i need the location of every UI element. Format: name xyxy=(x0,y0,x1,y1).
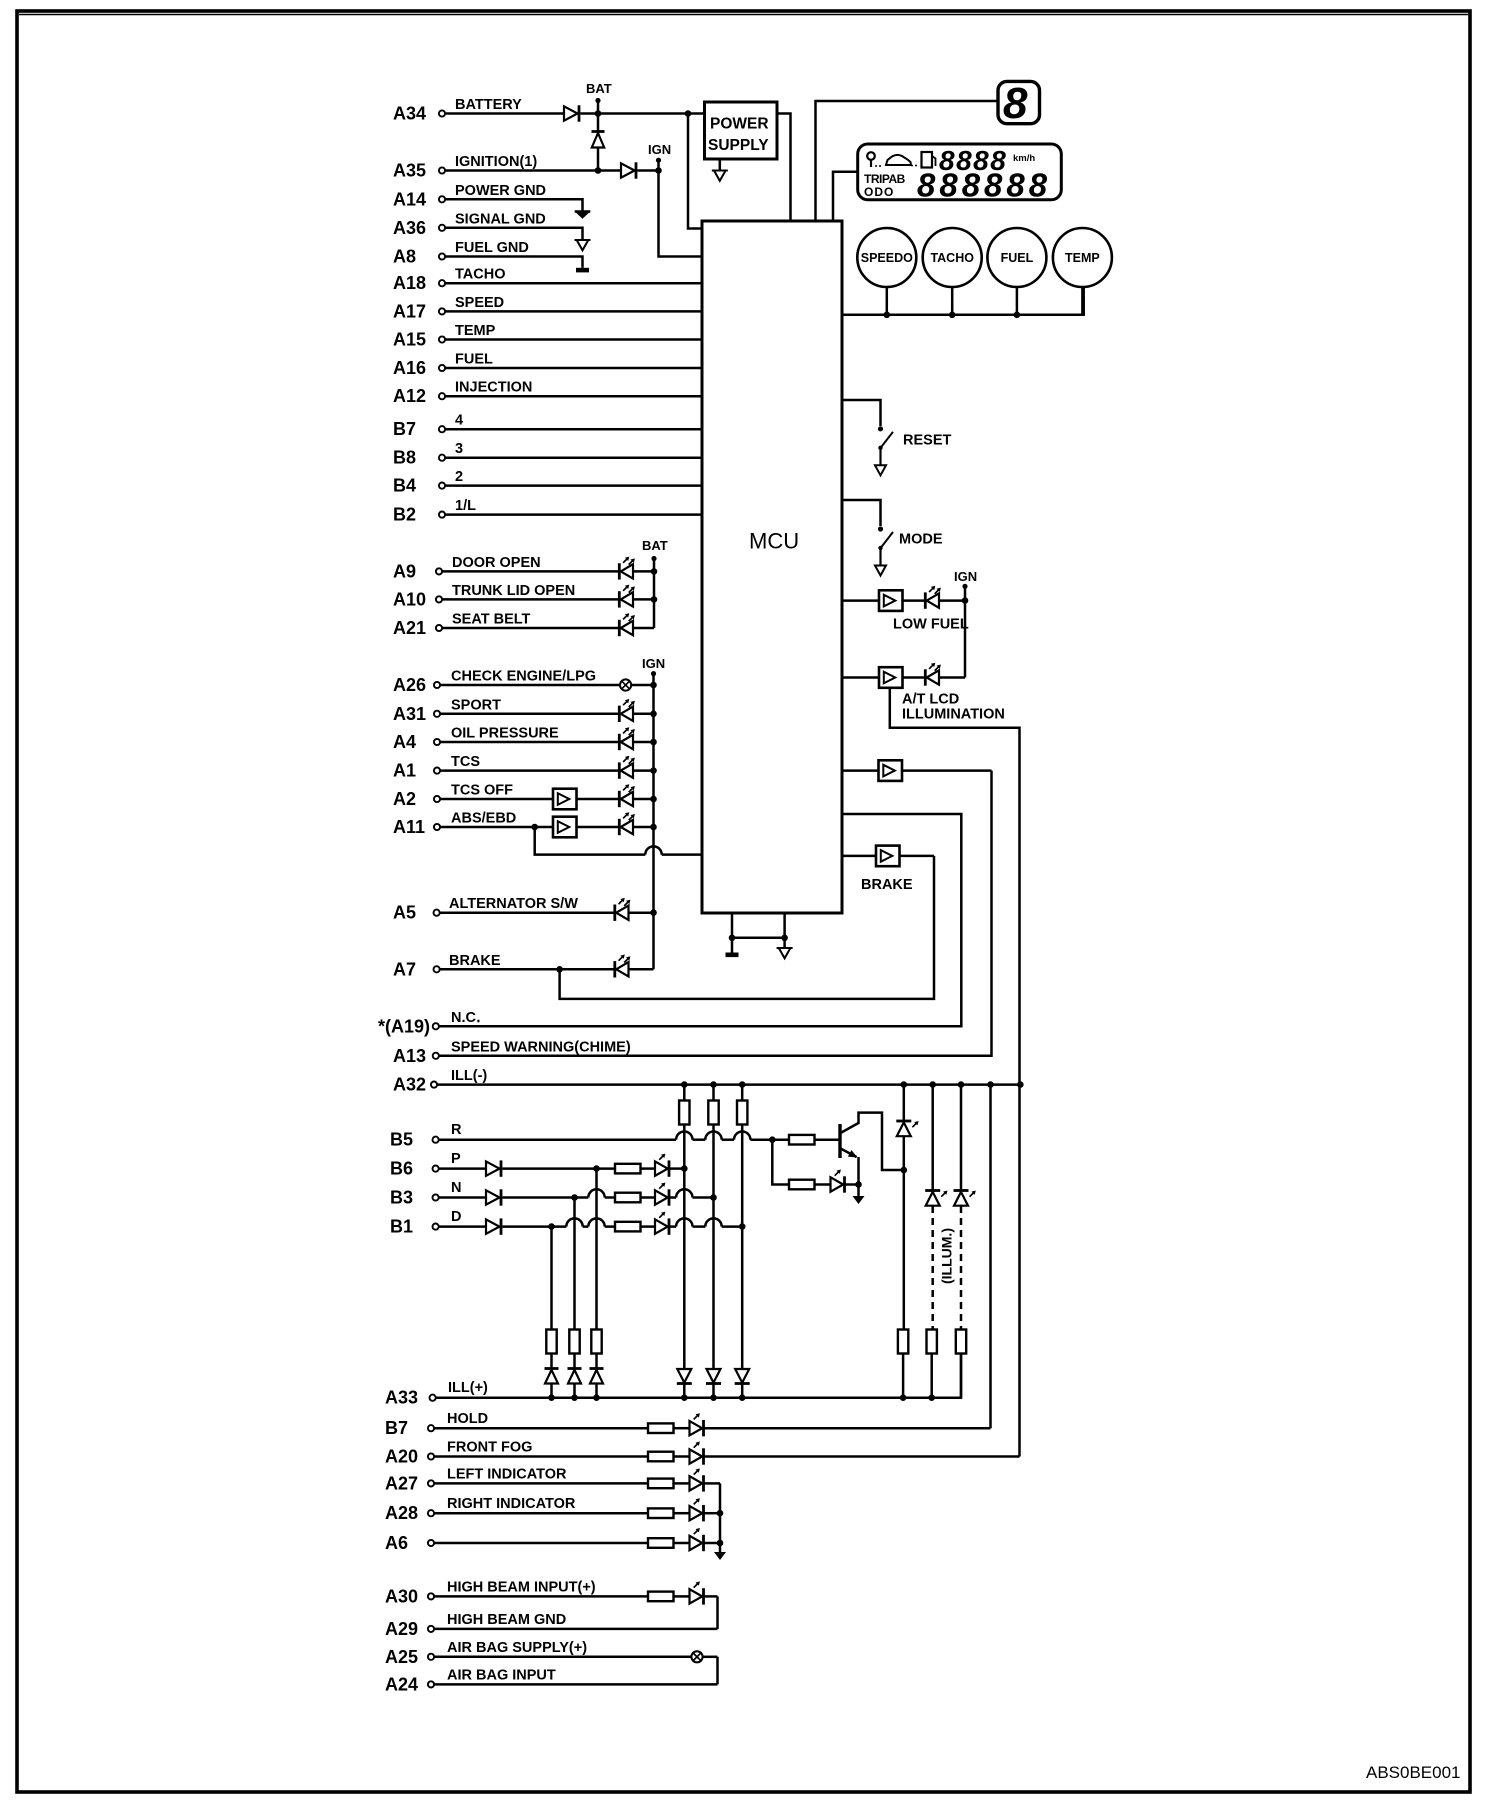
gauge FUEL circle xyxy=(987,228,1046,287)
diode D3 ignition xyxy=(621,162,636,178)
wire colA to ILL+ rail xyxy=(902,1354,905,1398)
wire A2 TCS OFF xyxy=(440,798,553,801)
wire B1 seg2 xyxy=(693,1225,706,1228)
terminal A35 xyxy=(439,167,445,173)
resistor B1 xyxy=(615,1222,641,1232)
resistor B6 xyxy=(615,1164,641,1174)
terminal A27 xyxy=(428,1480,434,1486)
resistor B1 column xyxy=(546,1330,556,1354)
svg-text:4: 4 xyxy=(455,413,463,429)
wire bulb A26 to IGN rail xyxy=(631,684,653,687)
svg-text:ODO: ODO xyxy=(864,185,894,199)
svg-text:A15: A15 xyxy=(393,330,426,350)
LED TCS OFF xyxy=(619,784,635,807)
driver low fuel xyxy=(879,590,903,611)
wire LED feedback to emitter xyxy=(845,1183,859,1186)
svg-text:A2: A2 xyxy=(393,789,416,809)
wire B6 column down xyxy=(595,1169,598,1330)
wire B2 1/L to MCU xyxy=(445,513,702,516)
wire driver A11 to LED xyxy=(577,826,619,829)
wire IGN right rail xyxy=(964,586,967,677)
wire B3 column to ILL+ rail xyxy=(573,1385,576,1398)
Q1 emitter arrowhead xyxy=(848,1150,858,1158)
wire A1 TCS xyxy=(440,769,619,772)
wire ILL- col2 to resistor xyxy=(712,1085,715,1101)
wire A30 HIGH BEAM INPUT(+) to resistor xyxy=(434,1595,648,1598)
svg-text:A32: A32 xyxy=(393,1075,426,1095)
LED ABS/EBD xyxy=(619,812,635,835)
wire hop B5 over col2 xyxy=(705,1132,721,1140)
svg-text:POWER: POWER xyxy=(710,116,769,133)
svg-text:A20: A20 xyxy=(385,1447,418,1467)
terminal A18 xyxy=(439,280,445,286)
wire A31 SPORT xyxy=(440,713,619,716)
wire battery junction down to MCU xyxy=(688,114,702,229)
wire hop A11 over IGN rail xyxy=(645,846,661,854)
terminal A19 xyxy=(433,1023,439,1029)
wire SPEEDO to bus xyxy=(886,287,889,315)
resistor ILL- col3 xyxy=(737,1101,747,1125)
wire A6 resistor to LED xyxy=(674,1542,690,1545)
svg-text:R: R xyxy=(451,1122,462,1138)
wire B6 resistor to LED xyxy=(641,1167,656,1170)
wire BAT lamp rail xyxy=(653,559,656,629)
LED colA up xyxy=(896,1121,918,1136)
terminal A5 xyxy=(434,910,440,916)
node ILL+ colA xyxy=(900,1394,907,1401)
node BAT rail A10 xyxy=(651,596,658,603)
wire MCU to driver3 xyxy=(842,769,879,772)
wire AT LCD LED to IGN rail xyxy=(939,676,965,679)
svg-text:MODE: MODE xyxy=(899,532,943,548)
wire A7 to brake driver loop xyxy=(560,856,934,999)
wire B7 HOLD to resistor xyxy=(434,1427,648,1430)
wire B7 resistor to LED xyxy=(674,1427,690,1430)
wire B5 R segment4 xyxy=(750,1138,789,1141)
wire ILL- col2 down xyxy=(712,1125,715,1370)
wire A20 FRONT FOG to resistor xyxy=(434,1455,648,1458)
resistor colC xyxy=(956,1330,966,1354)
wire colB to ILL+ rail xyxy=(930,1354,933,1398)
node ILL+ B1 xyxy=(548,1394,555,1401)
svg-text:P: P xyxy=(451,1151,461,1167)
terminal A8 xyxy=(439,253,445,259)
node ILL+ B6 xyxy=(593,1394,600,1401)
svg-text:8: 8 xyxy=(1003,79,1028,128)
node A7 brake branch xyxy=(556,966,563,973)
wire A29 HIGH BEAM GND xyxy=(434,1628,718,1631)
LED A30 HIGH BEAM INPUT(+) xyxy=(690,1581,704,1604)
svg-text:A12: A12 xyxy=(393,386,426,406)
diode col3 down xyxy=(735,1369,750,1384)
svg-text:FUEL: FUEL xyxy=(1001,251,1034,265)
wire MCU bottom tie xyxy=(732,937,785,940)
svg-text:SUPPLY: SUPPLY xyxy=(708,137,769,154)
wire B6 to column xyxy=(670,1167,685,1170)
wire A28 resistor to LED xyxy=(674,1512,690,1515)
wire B5 lower branch xyxy=(772,1140,789,1185)
svg-text:ILL(-): ILL(-) xyxy=(451,1068,487,1084)
node IGN2 stub top xyxy=(651,671,656,676)
svg-text:A18: A18 xyxy=(393,273,426,293)
wire MCU to mode switch xyxy=(842,500,881,526)
terminal A15 xyxy=(439,336,445,342)
wire B3 to column xyxy=(693,1196,714,1199)
driver ABS/EBD xyxy=(553,817,577,838)
wire LED A9 to BAT rail xyxy=(633,570,654,573)
node ILL- rail x1020.3 xyxy=(1017,1081,1024,1088)
svg-text:TRUNK LID OPEN: TRUNK LID OPEN xyxy=(452,583,575,599)
terminal B3 xyxy=(433,1194,439,1200)
node B6 column join xyxy=(681,1165,688,1172)
wire A28 RIGHT INDICATOR to resistor xyxy=(434,1512,648,1515)
diode D1 battery xyxy=(564,105,579,121)
switch RESET xyxy=(875,426,893,475)
wire A10 TRUNK LID OPEN to LED xyxy=(442,598,619,601)
svg-text:ABS/EBD: ABS/EBD xyxy=(451,811,516,827)
LED B7 HOLD xyxy=(690,1413,704,1436)
wire A9 DOOR OPEN to LED xyxy=(442,570,619,573)
terminal A2 xyxy=(434,796,440,802)
driver speed warning xyxy=(879,760,903,781)
svg-text:SIGNAL GND: SIGNAL GND xyxy=(455,211,546,227)
terminal A34 xyxy=(439,110,445,116)
svg-text:ILLUMINATION: ILLUMINATION xyxy=(902,707,1005,723)
terminal A14 xyxy=(439,196,445,202)
wire A13 speed warning loop xyxy=(439,771,992,1056)
svg-text:A34: A34 xyxy=(393,104,426,124)
terminal B7 xyxy=(439,426,445,432)
wire B1 column to ILL+ rail xyxy=(550,1385,553,1398)
wire ILL- to HOLD column xyxy=(989,1085,992,1429)
wire B5 R segment3 xyxy=(722,1138,734,1141)
wire hop B3 over x684.3 xyxy=(676,1189,692,1197)
power ground filled arrow xyxy=(575,212,591,219)
wire A5 alternator xyxy=(440,911,614,914)
signal ground open arrow xyxy=(575,240,591,250)
node ILL+ col3 xyxy=(739,1394,746,1401)
fuel ground bar xyxy=(576,268,589,273)
node ILL- rail x742.2 xyxy=(739,1081,746,1088)
svg-text:B2: B2 xyxy=(393,505,416,525)
wire TACHO to bus xyxy=(951,287,954,315)
terminal A10 xyxy=(436,596,442,602)
diode B1 D xyxy=(486,1218,501,1234)
node B5 branch xyxy=(769,1136,776,1143)
svg-text:B8: B8 xyxy=(393,448,416,468)
terminal B6 xyxy=(433,1166,439,1172)
svg-text:1/L: 1/L xyxy=(455,498,476,514)
wire hop B1 over x596.5 xyxy=(588,1218,604,1226)
wire MCU to 7-seg digit xyxy=(816,101,999,221)
terminal A6 xyxy=(428,1540,434,1546)
LED feedback xyxy=(831,1170,845,1193)
wire B1 to column xyxy=(722,1225,743,1228)
resistor B3 column xyxy=(569,1330,579,1354)
wire A11 ABS/EBD xyxy=(440,826,553,829)
wire B1 column to diode xyxy=(550,1354,553,1369)
svg-text:A28: A28 xyxy=(385,1503,418,1523)
diode B6 column up xyxy=(590,1369,604,1384)
svg-text:INJECTION: INJECTION xyxy=(455,380,532,396)
node A11 branch xyxy=(531,824,538,831)
svg-text:3: 3 xyxy=(455,441,463,457)
wire indicator common xyxy=(719,1483,722,1552)
svg-text:AIR BAG INPUT: AIR BAG INPUT xyxy=(447,1667,556,1683)
wire B1 seg xyxy=(583,1225,589,1228)
wire B3 to resistor xyxy=(605,1196,615,1199)
driver brake xyxy=(876,846,900,867)
wire MCU bottom pin2 xyxy=(783,913,786,948)
resistor A6 xyxy=(648,1538,674,1548)
power supply ground open arrow xyxy=(712,171,728,181)
7-segment digit indicator icon xyxy=(998,79,1040,128)
wire A26 CHECK ENGINE/LPG xyxy=(440,684,620,687)
svg-text:FRONT FOG: FRONT FOG xyxy=(447,1440,532,1456)
wire MCU to reset switch xyxy=(842,400,881,426)
wire B1 seg xyxy=(503,1225,567,1228)
svg-text:IGN: IGN xyxy=(954,569,977,584)
wire driver to AT LCD LED xyxy=(903,676,925,679)
svg-text:A5: A5 xyxy=(393,903,416,923)
wire B3 column down xyxy=(573,1198,576,1330)
svg-text:ABS0BE001: ABS0BE001 xyxy=(1366,1763,1461,1782)
terminal B5 xyxy=(433,1137,439,1143)
terminal A25 xyxy=(428,1654,434,1660)
svg-text:IGN: IGN xyxy=(642,656,665,671)
node B1 column join xyxy=(739,1223,746,1230)
node indicator A28 xyxy=(717,1510,724,1517)
terminal A29 xyxy=(428,1626,434,1632)
wire MCU to brake driver xyxy=(842,855,876,858)
gauge SPEEDO circle xyxy=(857,228,916,287)
terminal A1 xyxy=(434,768,440,774)
wire LED A2 to IGN rail xyxy=(633,798,654,801)
node B3 branch xyxy=(571,1194,578,1201)
wire B6 column to diode xyxy=(595,1354,598,1369)
terminal A13 xyxy=(433,1053,439,1059)
terminal A30 xyxy=(428,1593,434,1599)
wire TEMP to bus xyxy=(1081,287,1084,315)
node ILL- rail x903.8 xyxy=(901,1081,908,1088)
wire ILL- col3 down xyxy=(741,1125,744,1370)
wire B1 seg2 xyxy=(670,1225,677,1228)
svg-text:(ILLUM.): (ILLUM.) xyxy=(939,1228,955,1284)
wire R5 to LED xyxy=(815,1183,831,1186)
power supply U2 box xyxy=(705,102,778,159)
svg-text:N.C․: N.C․ xyxy=(451,1010,481,1026)
terminal A9 xyxy=(436,568,442,574)
node ILL- rail x932.7 xyxy=(929,1081,936,1088)
node bus speedo xyxy=(884,312,891,319)
resistor B7 xyxy=(648,1423,674,1433)
diode B3 column up xyxy=(568,1369,582,1384)
svg-text:A33: A33 xyxy=(385,1388,418,1408)
svg-text:RESET: RESET xyxy=(903,433,951,449)
wire MCU bottom pin1 xyxy=(731,913,734,953)
wire BAT stub xyxy=(597,101,600,132)
resistor A20 xyxy=(648,1452,674,1462)
wire driver A2 to LED xyxy=(577,798,619,801)
wire power-supply ground stub xyxy=(719,161,722,171)
svg-text:FUEL: FUEL xyxy=(455,352,493,368)
svg-text:BAT: BAT xyxy=(586,81,612,96)
terminal B1 xyxy=(433,1224,439,1230)
transistor Q1 base bar xyxy=(838,1124,841,1158)
terminal A20 xyxy=(428,1453,434,1459)
terminal A16 xyxy=(439,365,445,371)
node B3 column join xyxy=(710,1194,717,1201)
LED A28 RIGHT INDICATOR xyxy=(690,1498,704,1521)
LED TCS xyxy=(619,756,635,779)
node B6 branch xyxy=(593,1165,600,1172)
wire B1 D to diode xyxy=(439,1225,486,1228)
svg-text:AIR BAG SUPPLY(+): AIR BAG SUPPLY(+) xyxy=(447,1640,587,1656)
node BAT rail A9 xyxy=(651,568,658,575)
resistor B3 xyxy=(615,1193,641,1203)
LED SEAT BELT xyxy=(619,613,635,636)
svg-text:TACHO: TACHO xyxy=(455,267,505,283)
wire A36 signal gnd xyxy=(445,228,583,240)
wire gauge bus xyxy=(842,287,1084,315)
svg-text:IGNITION(1): IGNITION(1) xyxy=(455,154,537,170)
wire LED A31 to IGN rail xyxy=(633,713,654,716)
diode B1 column up xyxy=(545,1369,559,1384)
wire A27 resistor to LED xyxy=(674,1482,690,1485)
wire col2 to ILL+ rail xyxy=(712,1384,715,1398)
resistor colB xyxy=(927,1330,937,1354)
wire A20 resistor to LED xyxy=(674,1455,690,1458)
terminal A26 xyxy=(434,682,440,688)
LED OIL PRESSURE xyxy=(619,727,635,750)
wire B3 seg xyxy=(503,1196,589,1199)
node BAT stub top xyxy=(595,98,600,103)
wire A25 after bulb xyxy=(703,1656,718,1659)
svg-text:*(A19): *(A19) xyxy=(378,1016,430,1036)
LED SPORT xyxy=(619,699,635,722)
svg-text:888888: 888888 xyxy=(917,167,1051,204)
LED colC up xyxy=(954,1191,976,1206)
svg-text:B6: B6 xyxy=(390,1159,413,1179)
svg-text:RIGHT INDICATOR: RIGHT INDICATOR xyxy=(447,1496,576,1512)
wire col3 to ILL+ rail xyxy=(741,1384,744,1398)
svg-text:A10: A10 xyxy=(393,589,426,609)
driver AT LCD xyxy=(879,667,903,688)
svg-text:LOW FUEL: LOW FUEL xyxy=(893,617,969,633)
wire A30 after LED xyxy=(704,1595,718,1598)
terminal A31 xyxy=(434,711,440,717)
node indicator A6 xyxy=(717,1540,724,1547)
terminal A21 xyxy=(436,625,442,631)
wire B6 P to diode xyxy=(439,1167,486,1170)
svg-text:SPEEDO: SPEEDO xyxy=(861,251,913,265)
wire A11 branch to MCU part1 xyxy=(535,827,646,855)
svg-text:A7: A7 xyxy=(393,959,416,979)
wire LED A21 to BAT rail xyxy=(633,627,654,630)
LED colB up xyxy=(925,1191,947,1206)
node ILL+ col2 xyxy=(710,1394,717,1401)
svg-text:TRIPAB: TRIPAB xyxy=(864,172,906,186)
svg-text:HOLD: HOLD xyxy=(447,1411,488,1427)
node IGN rail A5 xyxy=(650,909,657,916)
node bus fuel xyxy=(1014,312,1021,319)
wire A20 after LED xyxy=(704,1455,1020,1458)
wire B3 resistor to LED xyxy=(641,1196,656,1199)
resistor R4 base xyxy=(789,1135,815,1145)
node Q1 collector join xyxy=(901,1167,908,1174)
svg-text:BRAKE: BRAKE xyxy=(449,953,501,969)
svg-text:SPORT: SPORT xyxy=(451,697,501,713)
LED A20 FRONT FOG xyxy=(690,1442,704,1465)
svg-text:N: N xyxy=(451,1180,461,1196)
diode col2 down xyxy=(706,1369,721,1384)
wire LED A7 to IGN rail xyxy=(629,968,654,971)
wire A35 ignition to diode xyxy=(445,169,621,172)
node bottom tie left xyxy=(729,935,736,942)
wire B8 3 to MCU xyxy=(445,456,702,459)
MCU U1 box xyxy=(702,221,842,913)
wire A27 LEFT INDICATOR to resistor xyxy=(434,1482,648,1485)
wire A8 fuel gnd xyxy=(445,257,583,268)
wire LED A11 to IGN rail xyxy=(633,826,654,829)
svg-text:SPEED WARNING(CHIME): SPEED WARNING(CHIME) xyxy=(451,1039,631,1055)
svg-text:A31: A31 xyxy=(393,704,426,724)
svg-text:ALTERNATOR S/W: ALTERNATOR S/W xyxy=(449,896,578,912)
wire colC to ILL+ rail xyxy=(960,1354,963,1398)
wire D2 to ignition line xyxy=(597,148,600,171)
svg-text:HIGH BEAM INPUT(+): HIGH BEAM INPUT(+) xyxy=(447,1579,596,1595)
wire Q1 emitter down xyxy=(857,1157,860,1196)
svg-text:D: D xyxy=(451,1209,461,1225)
wire ILL- colA down to LED xyxy=(903,1085,906,1121)
svg-text:A14: A14 xyxy=(393,189,426,209)
LED B3 N xyxy=(655,1183,669,1206)
wire hop B3 over x596.5 xyxy=(588,1189,604,1197)
svg-text:A1: A1 xyxy=(393,761,416,781)
svg-text:OIL PRESSURE: OIL PRESSURE xyxy=(451,726,559,742)
wire ILL- col3 to resistor xyxy=(741,1085,744,1101)
wire low fuel LED to IGN stub xyxy=(939,599,965,602)
indicator ground arrow xyxy=(714,1552,726,1560)
svg-text:B7: B7 xyxy=(393,419,416,439)
wire driver3 output xyxy=(902,769,992,772)
svg-text:A24: A24 xyxy=(385,1674,418,1694)
wire B1 to resistor xyxy=(605,1225,615,1228)
gauge TEMP circle xyxy=(1053,228,1112,287)
wire Q1 collector xyxy=(841,1113,904,1170)
svg-text:TACHO: TACHO xyxy=(930,251,974,265)
wire B1 column down xyxy=(550,1227,553,1330)
node IGN rail A1 xyxy=(650,767,657,774)
svg-text:A29: A29 xyxy=(385,1619,418,1639)
wire A15 TEMP to MCU xyxy=(445,338,702,341)
diode B6 P xyxy=(486,1160,501,1176)
resistor A28 xyxy=(648,1508,674,1518)
bulb A25 xyxy=(691,1651,702,1662)
wire battery rail after D1 xyxy=(581,112,705,115)
wire IGN lamp rail xyxy=(652,674,655,970)
wire LED A1 to IGN rail xyxy=(633,769,654,772)
wire A30 resistor to LED xyxy=(674,1595,690,1598)
terminal A11 xyxy=(434,824,440,830)
wire MCU to AT LCD driver xyxy=(842,676,879,679)
LED brake lamp xyxy=(615,955,631,978)
svg-text:A9: A9 xyxy=(393,561,416,581)
node IGN rail A11 xyxy=(650,824,657,831)
wire power supply output to MCU xyxy=(777,114,791,222)
wire B6 column to ILL+ rail xyxy=(595,1385,598,1398)
node ILL+ col1 xyxy=(681,1394,688,1401)
